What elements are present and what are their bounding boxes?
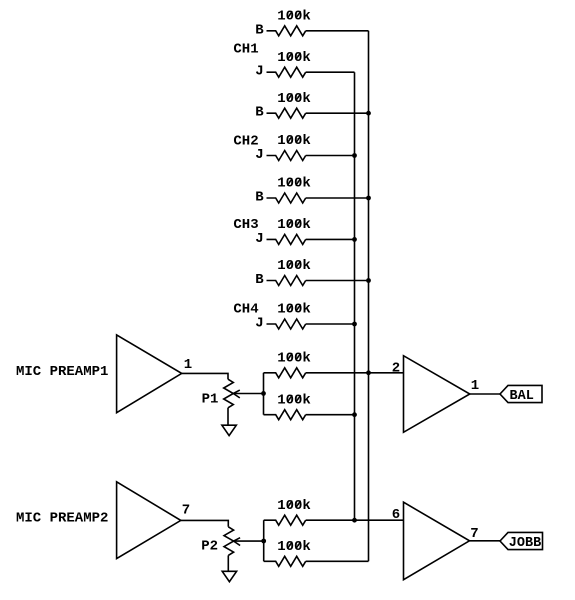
svg-text:CH3: CH3 xyxy=(233,217,258,233)
junction R11/J-bus xyxy=(352,518,357,523)
svg-text:1: 1 xyxy=(471,378,479,394)
svg-text:BAL: BAL xyxy=(510,389,534,404)
wire R9 to U1 input xyxy=(306,372,404,374)
wire P2 bottom to ground xyxy=(227,555,229,571)
net flag BAL xyxy=(500,385,542,403)
junction R9/B-bus xyxy=(366,370,371,375)
svg-text:JOBB: JOBB xyxy=(509,536,541,551)
svg-text:100k: 100k xyxy=(277,302,311,318)
svg-text:J: J xyxy=(255,231,263,247)
svg-text:CH4: CH4 xyxy=(233,302,258,318)
resistor R6 (CH3 J input, 100k) xyxy=(267,217,311,244)
junction R6/J-bus xyxy=(352,237,357,242)
svg-text:100k: 100k xyxy=(277,392,311,408)
svg-text:MIC PREAMP2: MIC PREAMP2 xyxy=(16,511,108,527)
svg-text:7: 7 xyxy=(182,502,190,518)
junction R3/B-bus xyxy=(366,111,371,116)
svg-text:100k: 100k xyxy=(277,217,311,233)
wire MIC PREAMP1 output to P1 xyxy=(182,373,228,379)
svg-text:100k: 100k xyxy=(277,498,311,514)
wire MIC PREAMP2 output to P2 xyxy=(181,520,229,526)
svg-text:CH2: CH2 xyxy=(233,134,258,150)
junction R4/J-bus xyxy=(352,153,357,158)
resistor R3 (CH2 B input, 100k) xyxy=(267,91,311,118)
wire R1 to B bus xyxy=(306,30,369,32)
svg-text:100k: 100k xyxy=(277,351,311,367)
junction R10/J-bus xyxy=(352,412,357,417)
junction R7/B-bus xyxy=(366,278,371,283)
svg-text:7: 7 xyxy=(470,526,478,542)
junction P2 wiper node xyxy=(261,539,266,544)
wire R8 to J bus xyxy=(306,323,355,325)
resistor R4 (CH2 J input, 100k) xyxy=(267,133,311,160)
svg-text:J: J xyxy=(255,316,263,332)
svg-text:B: B xyxy=(255,105,264,121)
potentiometer P1 xyxy=(202,379,264,408)
wire U2 output xyxy=(470,540,501,542)
resistor R11 (P2 to J mix, 100k) xyxy=(264,498,311,525)
wire R12 to B bus corner xyxy=(306,560,369,562)
wire R5 to B bus xyxy=(306,197,369,199)
wire R2 to J bus xyxy=(306,71,355,73)
svg-text:CH1: CH1 xyxy=(233,42,258,58)
potentiometer P2 xyxy=(201,527,263,556)
wire U1 output xyxy=(470,393,500,395)
junction R8/J-bus xyxy=(352,322,357,327)
op-amp U1 (BAL summing amp) xyxy=(404,356,470,433)
resistor R8 (CH4 J input, 100k) xyxy=(267,302,311,329)
resistor R7 (CH4 B input, 100k) xyxy=(267,258,311,285)
svg-text:B: B xyxy=(255,22,264,38)
wire B bus (vertical) xyxy=(368,31,370,562)
junction R5/B-bus xyxy=(366,196,371,201)
svg-text:1: 1 xyxy=(184,357,192,373)
ground (P2) xyxy=(222,571,236,581)
svg-text:J: J xyxy=(255,64,263,80)
svg-text:B: B xyxy=(255,272,264,288)
resistor R1 (CH1 B input, 100k) xyxy=(267,9,311,36)
wire R7 to B bus xyxy=(306,280,369,282)
wire R10 to J bus xyxy=(306,414,355,416)
svg-text:MIC PREAMP1: MIC PREAMP1 xyxy=(16,364,108,380)
svg-text:100k: 100k xyxy=(277,91,311,107)
resistor R10 (P1 to J mix, 100k) xyxy=(264,392,311,419)
svg-text:6: 6 xyxy=(392,507,400,523)
svg-text:2: 2 xyxy=(392,361,400,377)
ground (P1) xyxy=(222,425,236,435)
svg-text:P2: P2 xyxy=(201,539,218,555)
svg-text:P1: P1 xyxy=(202,391,219,407)
resistor R2 (CH1 J input, 100k) xyxy=(267,50,311,77)
op-amp U2 (JOBB summing amp) xyxy=(404,502,470,580)
resistor R12 (P2 to B mix, 100k) xyxy=(264,539,311,566)
wire R4 to J bus xyxy=(306,155,355,157)
net flag JOBB xyxy=(500,532,543,551)
resistor R5 (CH3 B input, 100k) xyxy=(267,176,311,203)
svg-text:B: B xyxy=(255,190,264,206)
wire R3 to B bus xyxy=(306,112,369,114)
svg-text:100k: 100k xyxy=(277,50,311,66)
svg-text:100k: 100k xyxy=(277,258,311,274)
svg-text:100k: 100k xyxy=(277,9,311,25)
resistor R9 (P1 to B mix, 100k) xyxy=(264,351,311,378)
wire J bus (vertical) xyxy=(354,72,356,520)
wire R6 to J bus xyxy=(306,238,355,240)
wire R11 to U2 input xyxy=(306,519,404,521)
op-amp MIC PREAMP2 xyxy=(16,482,181,559)
svg-text:100k: 100k xyxy=(277,539,311,555)
op-amp MIC PREAMP1 xyxy=(16,335,182,413)
wire P2 wiper bracket xyxy=(263,520,265,561)
svg-text:100k: 100k xyxy=(277,176,311,192)
junction P1 wiper node xyxy=(261,391,266,396)
wire P1 wiper bracket xyxy=(263,373,265,415)
svg-text:100k: 100k xyxy=(277,133,311,149)
wire P1 bottom to ground xyxy=(227,408,229,425)
